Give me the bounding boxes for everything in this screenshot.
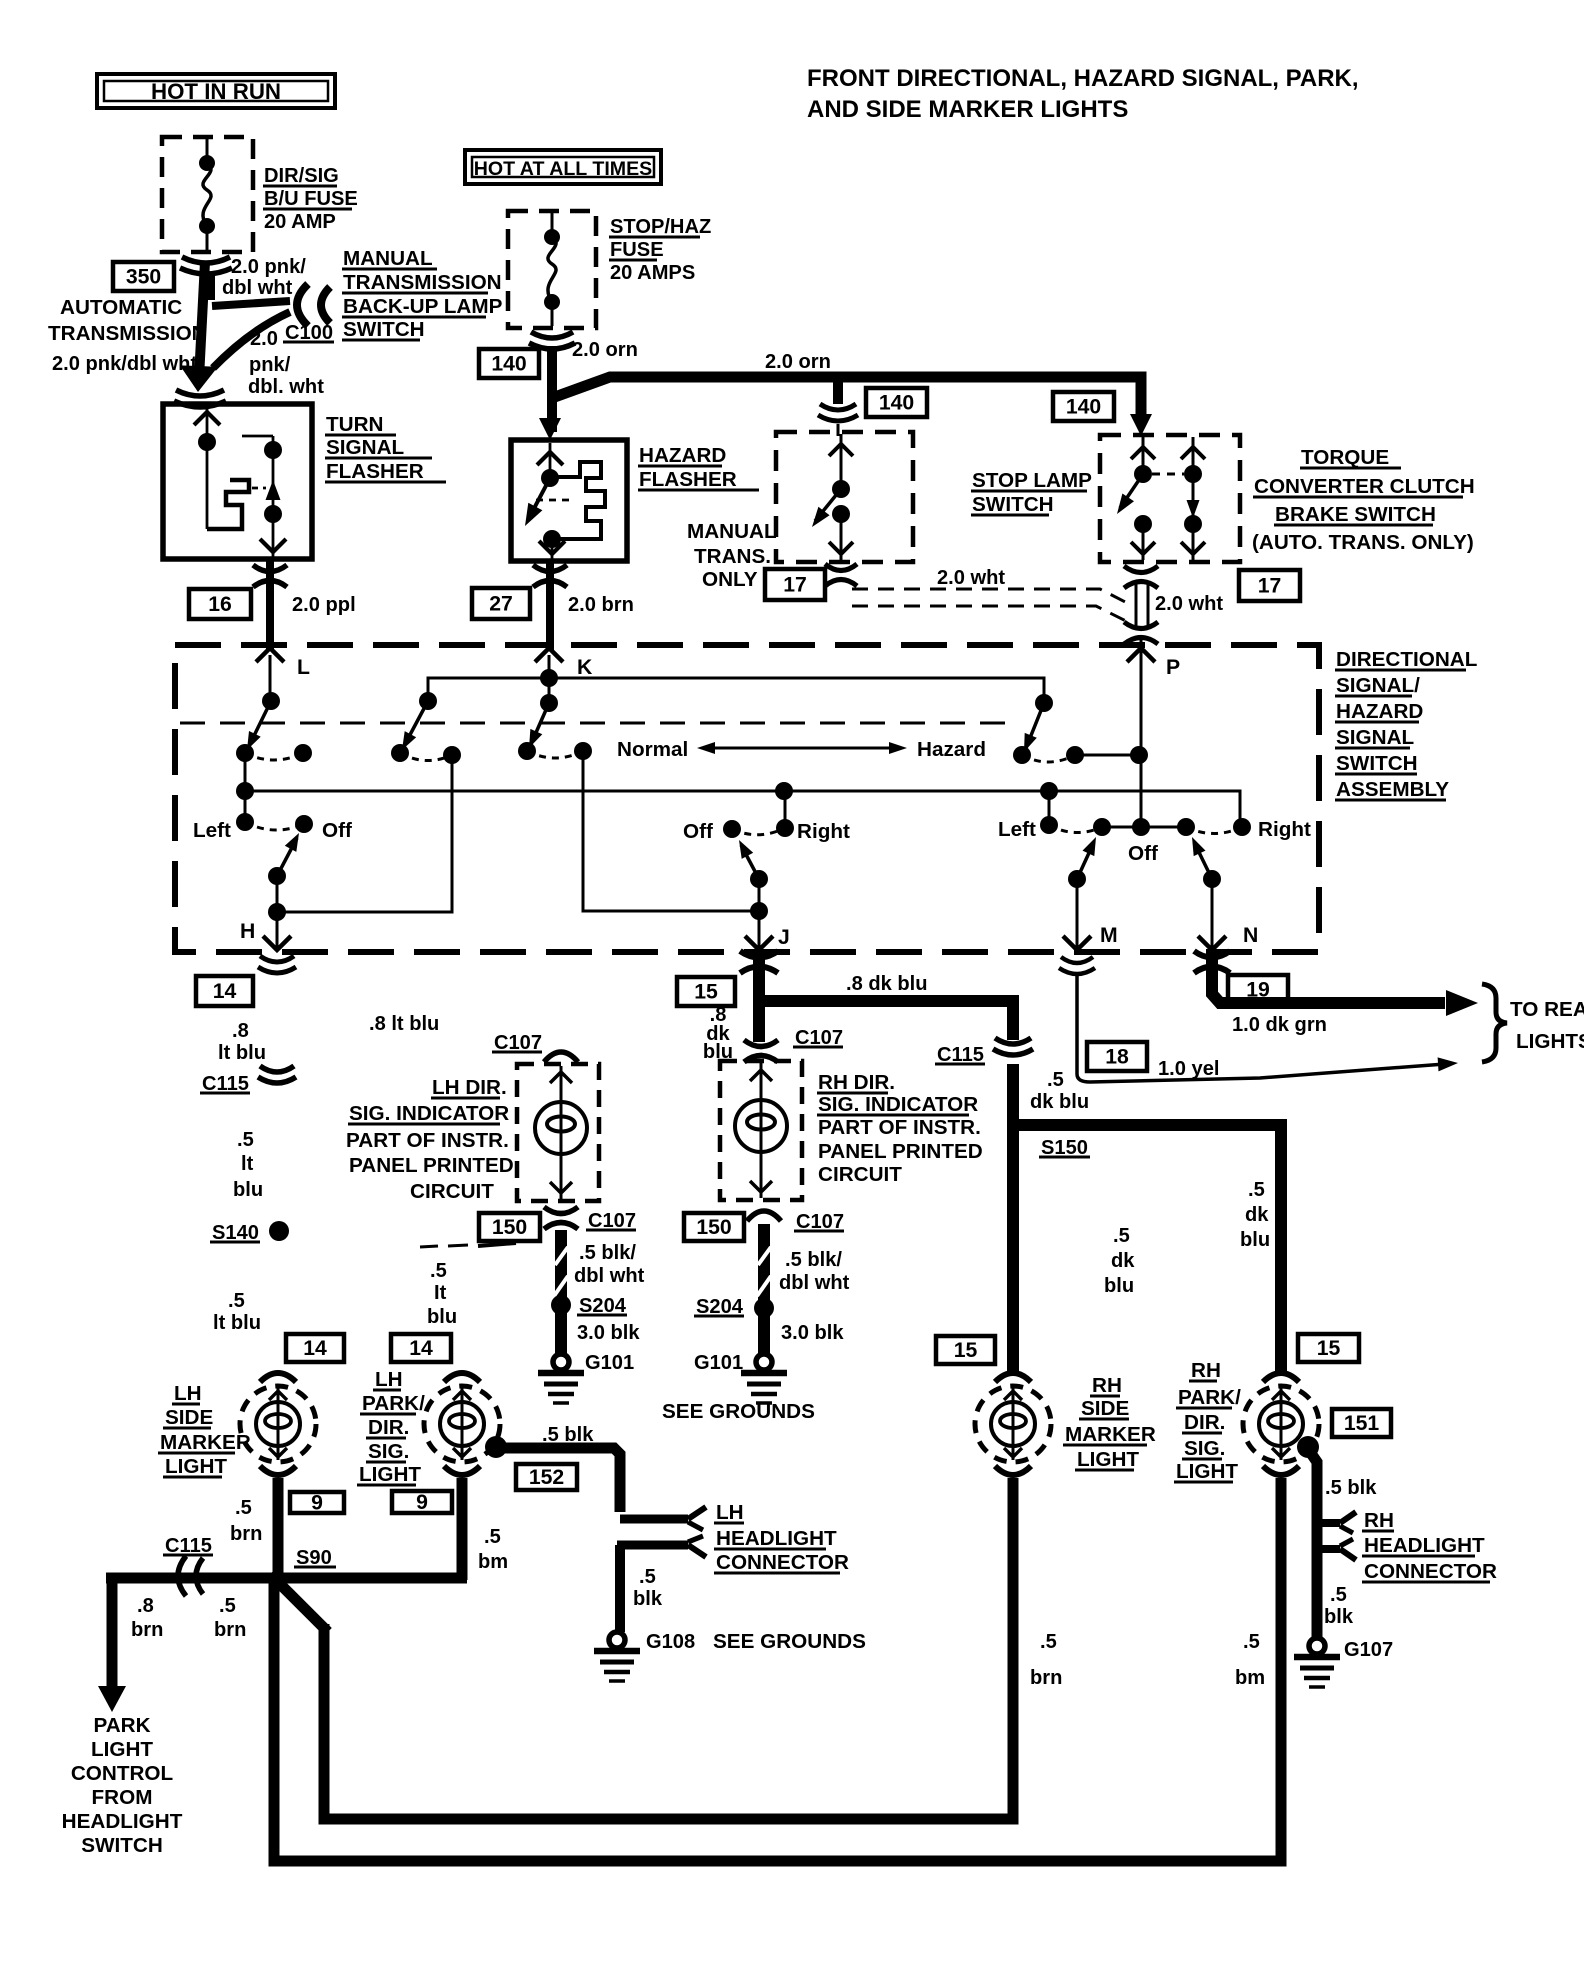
- stop lamp switch box: [776, 432, 913, 562]
- svg-text:LIGHTS: LIGHTS: [1516, 1030, 1584, 1053]
- wire park light control: [107, 1574, 118, 1692]
- svg-text:blu: blu: [427, 1306, 457, 1328]
- svg-text:16: 16: [208, 593, 232, 616]
- wire 16 to switch L: [266, 592, 274, 650]
- svg-text:brn: brn: [1030, 1667, 1062, 1689]
- svg-text:20 AMP: 20 AMP: [264, 211, 336, 233]
- svg-text:RH: RH: [1191, 1359, 1221, 1382]
- wire H exit: [276, 912, 279, 950]
- connector 9 LH1: [290, 1492, 344, 1513]
- svg-text:17: 17: [783, 574, 807, 597]
- svg-text:151: 151: [1344, 1412, 1380, 1435]
- svg-text:LIGHT: LIGHT: [165, 1455, 227, 1478]
- svg-text:2.0 wht: 2.0 wht: [937, 567, 1005, 589]
- normal-hazard arrow: [706, 747, 898, 750]
- svg-text:.5: .5: [1248, 1179, 1265, 1201]
- connector C115 bottom: [178, 1556, 186, 1596]
- svg-text:CONVERTER CLUTCH: CONVERTER CLUTCH: [1254, 475, 1475, 498]
- contacts row upper: [236, 744, 254, 762]
- svg-text:1.0 yel: 1.0 yel: [1158, 1058, 1219, 1080]
- terminal M: [1063, 936, 1091, 950]
- connector C107 LH top: [544, 1052, 578, 1062]
- svg-text:.5 blk: .5 blk: [1325, 1477, 1377, 1499]
- svg-text:G101: G101: [585, 1352, 634, 1374]
- wire lower return run: [274, 1478, 1281, 1861]
- wire to C100 upper: [212, 301, 290, 306]
- connector below stop/haz fuse: [531, 332, 573, 338]
- RH park junction dot: [1297, 1436, 1319, 1458]
- svg-text:DIR/SIG: DIR/SIG: [264, 165, 339, 187]
- svg-text:HEADLIGHT: HEADLIGHT: [62, 1810, 183, 1833]
- connector 140 middle: [866, 388, 927, 417]
- wire 15 branch: [1013, 1125, 1281, 1374]
- connector below turn flasher: [253, 565, 287, 572]
- svg-text:Off: Off: [322, 819, 352, 842]
- svg-text:HAZARD: HAZARD: [1336, 700, 1423, 723]
- svg-text:140: 140: [879, 392, 914, 415]
- svg-text:ONLY: ONLY: [702, 568, 758, 591]
- wire J exit: [758, 911, 761, 950]
- brace to rear lights: [1482, 984, 1507, 1062]
- svg-text:SIG.: SIG.: [368, 1440, 409, 1463]
- wire top link: [428, 678, 1044, 703]
- svg-text:ASSEMBLY: ASSEMBLY: [1336, 778, 1449, 801]
- svg-text:SWITCH: SWITCH: [81, 1834, 163, 1857]
- connector on stop lamp stub: [820, 404, 856, 410]
- svg-text:Off: Off: [1128, 842, 1158, 865]
- svg-text:RH: RH: [1092, 1374, 1122, 1397]
- svg-text:150: 150: [492, 1216, 527, 1239]
- svg-text:PANEL PRINTED: PANEL PRINTED: [818, 1140, 983, 1163]
- svg-text:TO REAR: TO REAR: [1510, 998, 1584, 1021]
- svg-text:H: H: [240, 920, 255, 943]
- connector 9 LH2: [392, 1491, 452, 1513]
- HOT AT ALL TIMES feed box: [465, 150, 661, 184]
- connector 15 left: [936, 1336, 995, 1364]
- svg-text:SIG.: SIG.: [1184, 1437, 1225, 1460]
- torque converter clutch brake switch box: [1100, 435, 1240, 562]
- terminal J: [745, 936, 773, 950]
- svg-text:.5 blk/: .5 blk/: [785, 1249, 842, 1271]
- svg-text:SWITCH: SWITCH: [972, 493, 1054, 516]
- RH dir sig indicator box: [720, 1061, 802, 1200]
- splice S204 RH: [754, 1298, 774, 1318]
- ground G101 LH: [553, 1354, 569, 1370]
- svg-text:STOP LAMP: STOP LAMP: [972, 469, 1092, 492]
- svg-text:9: 9: [311, 1492, 323, 1515]
- svg-text:bm: bm: [478, 1551, 508, 1573]
- svg-text:9: 9: [416, 1491, 428, 1514]
- svg-text:CONNECTOR: CONNECTOR: [1364, 1560, 1497, 1583]
- svg-text:.5 blk/: .5 blk/: [579, 1242, 636, 1264]
- wiper H: [277, 838, 297, 876]
- connector C100: [297, 284, 308, 326]
- svg-text:.8 lt blu: .8 lt blu: [369, 1013, 439, 1035]
- svg-text:BRAKE SWITCH: BRAKE SWITCH: [1275, 503, 1436, 526]
- LH park/dir sig bulb: [424, 1386, 500, 1462]
- svg-text:.5: .5: [430, 1260, 447, 1282]
- svg-text:14: 14: [303, 1337, 327, 1360]
- svg-text:LH: LH: [174, 1382, 202, 1405]
- svg-text:dbl wht: dbl wht: [779, 1272, 850, 1294]
- svg-text:FUSE: FUSE: [610, 239, 664, 261]
- svg-text:PARK: PARK: [93, 1714, 150, 1737]
- connector C115 right: [995, 1038, 1031, 1044]
- svg-text:PART OF INSTR.: PART OF INSTR.: [818, 1116, 981, 1139]
- svg-text:dbl wht: dbl wht: [574, 1265, 645, 1287]
- svg-text:dbl wht: dbl wht: [222, 277, 293, 299]
- svg-text:.5: .5: [1040, 1631, 1057, 1653]
- connector 14 right: [391, 1334, 451, 1362]
- svg-text:MARKER: MARKER: [1065, 1423, 1156, 1446]
- wiper b upper: [404, 701, 428, 746]
- wire to P: [1140, 640, 1143, 662]
- svg-text:PARK/: PARK/: [362, 1392, 425, 1415]
- svg-text:20 AMPS: 20 AMPS: [610, 262, 695, 284]
- svg-text:LH: LH: [375, 1368, 403, 1391]
- RH park/dir sig bulb: [1243, 1386, 1319, 1462]
- svg-text:.5: .5: [219, 1595, 236, 1617]
- svg-text:LH: LH: [716, 1501, 744, 1524]
- svg-text:blk: blk: [1324, 1606, 1354, 1628]
- svg-text:PART OF INSTR.: PART OF INSTR.: [346, 1129, 509, 1152]
- wire N grn: [1212, 952, 1445, 1003]
- svg-text:150: 150: [696, 1216, 731, 1239]
- connector below arrow: [176, 390, 224, 396]
- wire 2.0 wht dashed upper: [852, 589, 1133, 606]
- connector 16: [189, 589, 251, 619]
- wire from C100 lower: [213, 312, 290, 368]
- svg-text:dk blu: dk blu: [1030, 1091, 1089, 1113]
- svg-text:pnk/: pnk/: [249, 354, 291, 376]
- arrow into hazard flasher: [539, 418, 561, 440]
- svg-text:TURN: TURN: [326, 413, 383, 436]
- svg-text:.5: .5: [1113, 1225, 1130, 1247]
- connector 15 J: [677, 977, 735, 1006]
- svg-text:TORQUE: TORQUE: [1301, 446, 1389, 469]
- svg-text:.5: .5: [1243, 1631, 1260, 1653]
- svg-text:SEE GROUNDS: SEE GROUNDS: [713, 1630, 866, 1653]
- svg-text:14: 14: [213, 980, 237, 1003]
- svg-text:MANUAL: MANUAL: [687, 520, 777, 543]
- svg-text:M: M: [1100, 924, 1118, 947]
- svg-text:350: 350: [126, 266, 161, 289]
- wire fuse to hazard flasher: [547, 346, 557, 432]
- arrow into torque switch: [1130, 414, 1152, 436]
- wire 2.0 wht hollow: [1135, 584, 1138, 627]
- svg-text:18: 18: [1105, 1046, 1129, 1069]
- svg-text:Off: Off: [683, 820, 713, 843]
- svg-text:15: 15: [954, 1339, 978, 1362]
- wiper N: [1194, 842, 1212, 879]
- wire fuse to flasher: [199, 262, 205, 378]
- svg-text:.8: .8: [137, 1595, 154, 1617]
- svg-text:SIDE: SIDE: [1081, 1397, 1129, 1420]
- wire J cross link: [583, 751, 759, 911]
- torque switch internals: [1142, 437, 1145, 474]
- connector below N: [1194, 951, 1230, 958]
- svg-text:17: 17: [1258, 575, 1282, 598]
- left group lower: [244, 791, 247, 822]
- pivot dots upper: [262, 692, 280, 710]
- wire S90 horizontal: [106, 1573, 467, 1584]
- svg-text:(AUTO. TRANS. ONLY): (AUTO. TRANS. ONLY): [1252, 531, 1474, 554]
- wire stub lower: [837, 424, 840, 436]
- svg-text:PARK/: PARK/: [1178, 1386, 1241, 1409]
- svg-text:RH: RH: [1364, 1509, 1394, 1532]
- svg-text:2.0 pnk/: 2.0 pnk/: [231, 256, 306, 278]
- terminal P: [1127, 648, 1155, 662]
- svg-text:It: It: [434, 1282, 447, 1304]
- svg-text:.5: .5: [484, 1526, 501, 1548]
- svg-text:FLASHER: FLASHER: [326, 460, 424, 483]
- svg-text:Left: Left: [193, 819, 231, 842]
- terminal K: [535, 648, 563, 662]
- svg-text:27: 27: [489, 593, 513, 616]
- svg-text:MANUAL: MANUAL: [343, 247, 433, 270]
- wire hazard to 27: [546, 561, 554, 592]
- wire 2.0 wht dashed lower: [852, 606, 1130, 623]
- connector below stop lamp switch: [825, 564, 857, 571]
- svg-text:.5: .5: [228, 1290, 245, 1312]
- wire P into box: [1140, 655, 1143, 827]
- smudge dashes: [420, 1246, 438, 1247]
- svg-text:dbl. wht: dbl. wht: [248, 376, 324, 398]
- svg-text:15: 15: [1317, 1337, 1341, 1360]
- connector 150 LH: [479, 1213, 540, 1241]
- svg-text:PANEL PRINTED: PANEL PRINTED: [349, 1154, 514, 1177]
- fuse DIR/SIG B/U FUSE 20 AMP: [162, 137, 253, 252]
- mechanical dashed link: [180, 722, 1020, 725]
- svg-text:2.0 orn: 2.0 orn: [572, 339, 638, 361]
- svg-text:Right: Right: [797, 820, 850, 843]
- svg-text:SWITCH: SWITCH: [1336, 752, 1418, 775]
- svg-text:RH DIR.: RH DIR.: [818, 1071, 895, 1094]
- svg-text:K: K: [577, 656, 593, 679]
- svg-text:2.0 brn: 2.0 brn: [568, 594, 634, 616]
- svg-text:.5: .5: [639, 1566, 656, 1588]
- connector 14 H: [196, 976, 253, 1006]
- svg-text:2.0: 2.0: [250, 328, 278, 350]
- svg-text:TRANS.: TRANS.: [694, 545, 771, 568]
- connector below fuse: [182, 257, 230, 263]
- connector C107 LH bottom: [544, 1207, 578, 1214]
- svg-text:CIRCUIT: CIRCUIT: [818, 1163, 902, 1186]
- svg-text:BACK-UP LAMP: BACK-UP LAMP: [343, 295, 503, 318]
- ground G101 RH: [756, 1354, 772, 1370]
- svg-text:2.0 orn: 2.0 orn: [765, 351, 831, 373]
- contact arcs upper: [245, 753, 303, 760]
- svg-text:SIGNAL/: SIGNAL/: [1336, 674, 1420, 697]
- hazard flasher box: [511, 440, 627, 561]
- connector 151: [1332, 1409, 1391, 1437]
- svg-text:DIR.: DIR.: [368, 1416, 409, 1439]
- svg-text:HOT IN RUN: HOT IN RUN: [151, 79, 281, 104]
- connector 18: [1087, 1042, 1147, 1071]
- terminal L: [256, 648, 284, 662]
- svg-text:Hazard: Hazard: [917, 738, 986, 761]
- wire upper return run: [324, 1478, 1013, 1819]
- wire L into box: [269, 655, 272, 701]
- svg-text:SIGNAL: SIGNAL: [326, 436, 404, 459]
- svg-text:14: 14: [409, 1337, 433, 1360]
- svg-text:140: 140: [1066, 396, 1101, 419]
- svg-text:Left: Left: [998, 818, 1036, 841]
- connector 15 right: [1298, 1334, 1359, 1362]
- wire S90 diagonal: [274, 1578, 324, 1628]
- turn signal flasher internals: [206, 407, 209, 529]
- wire LH park down: [457, 1478, 468, 1580]
- stop lamp switch internals: [840, 434, 843, 489]
- connector 17 right: [1239, 570, 1300, 601]
- svg-text:152: 152: [529, 1466, 564, 1489]
- svg-text:DIR.: DIR.: [1184, 1411, 1225, 1434]
- wire to G108: [615, 1545, 625, 1632]
- turn signal flasher box: [163, 404, 312, 559]
- wire M yel: [1077, 973, 1445, 1082]
- connector below M: [1061, 957, 1093, 963]
- svg-text:FROM: FROM: [92, 1786, 153, 1809]
- HOT IN RUN feed box: [97, 74, 335, 108]
- connector 27: [472, 588, 530, 619]
- svg-text:blu: blu: [233, 1179, 263, 1201]
- svg-text:LIGHT: LIGHT: [91, 1738, 153, 1761]
- LH park junction dot: [485, 1436, 507, 1458]
- svg-text:LIGHT: LIGHT: [1077, 1448, 1139, 1471]
- svg-text:HEADLIGHT: HEADLIGHT: [716, 1527, 837, 1550]
- svg-text:15: 15: [694, 981, 718, 1004]
- svg-text:LIGHT: LIGHT: [1176, 1460, 1238, 1483]
- svg-text:B/U FUSE: B/U FUSE: [264, 188, 358, 210]
- svg-text:brn: brn: [230, 1523, 262, 1545]
- svg-text:blk: blk: [633, 1588, 663, 1610]
- MN group contacts: [1048, 791, 1051, 825]
- wire stub to stop lamp switch: [833, 382, 843, 404]
- svg-text:TRANSMISSION: TRANSMISSION: [48, 322, 207, 345]
- svg-text:AND SIDE MARKER LIGHTS: AND SIDE MARKER LIGHTS: [807, 96, 1128, 123]
- wire RH indicator ground: [758, 1224, 770, 1354]
- svg-text:HAZARD: HAZARD: [639, 444, 726, 467]
- svg-text:blu: blu: [1240, 1229, 1270, 1251]
- wire LH side marker down: [273, 1478, 284, 1580]
- svg-text:.5: .5: [235, 1497, 252, 1519]
- connector below hazard flasher: [533, 565, 567, 572]
- svg-text:.5: .5: [237, 1129, 254, 1151]
- svg-text:2.0 wht: 2.0 wht: [1155, 593, 1223, 615]
- arrow into turn signal flasher: [180, 365, 218, 392]
- RH headlight connector symbol: [1317, 1519, 1340, 1527]
- svg-text:P: P: [1166, 656, 1180, 679]
- svg-text:DIRECTIONAL: DIRECTIONAL: [1336, 648, 1477, 671]
- wiper L upper: [249, 701, 271, 746]
- wiper P upper: [1026, 703, 1044, 748]
- svg-text:SWITCH: SWITCH: [343, 318, 425, 341]
- svg-text:lt blu: lt blu: [213, 1312, 261, 1334]
- connector below torque switch: [1124, 566, 1158, 573]
- connector C107 RH top: [744, 1040, 778, 1047]
- svg-text:AUTOMATIC: AUTOMATIC: [60, 296, 182, 319]
- connector C107 RH bottom: [747, 1211, 781, 1221]
- svg-text:dk: dk: [1111, 1250, 1135, 1272]
- svg-text:L: L: [297, 656, 310, 679]
- svg-text:FLASHER: FLASHER: [639, 468, 737, 491]
- svg-text:lt: lt: [241, 1153, 254, 1175]
- svg-text:CONNECTOR: CONNECTOR: [716, 1551, 849, 1574]
- svg-text:HEADLIGHT: HEADLIGHT: [1364, 1534, 1485, 1557]
- connector 19: [1228, 975, 1288, 1004]
- directional signal switch assembly box: [175, 645, 1319, 952]
- svg-text:STOP/HAZ: STOP/HAZ: [610, 216, 711, 238]
- svg-text:TRANSMISSION: TRANSMISSION: [343, 271, 502, 294]
- connector C115 left: [260, 1066, 294, 1072]
- ground G108: [609, 1632, 625, 1648]
- wire orn bus: [552, 377, 1141, 424]
- svg-text:.8: .8: [232, 1020, 249, 1042]
- wire 15 main: [1007, 1064, 1019, 1374]
- svg-text:bm: bm: [1235, 1667, 1265, 1689]
- wire LH indicator ground: [555, 1230, 567, 1354]
- wiper M: [1077, 842, 1094, 879]
- connector below H: [260, 956, 294, 962]
- splice S204 LH: [551, 1295, 571, 1315]
- connector 140 right: [1053, 392, 1114, 421]
- wire J dk blu: [759, 952, 1013, 1040]
- svg-text:Normal: Normal: [617, 738, 688, 761]
- LH headlight connector symbol: [620, 1515, 688, 1524]
- svg-text:dk: dk: [1245, 1204, 1269, 1226]
- wire bus: [245, 753, 1240, 827]
- svg-text:.5: .5: [1047, 1069, 1064, 1091]
- svg-text:SIG. INDICATOR: SIG. INDICATOR: [818, 1093, 978, 1116]
- LH side marker bulb: [240, 1386, 316, 1462]
- wire K into box: [548, 655, 551, 703]
- svg-text:Right: Right: [1258, 818, 1311, 841]
- svg-text:SIG. INDICATOR: SIG. INDICATOR: [349, 1102, 509, 1125]
- connector above P: [1124, 622, 1158, 629]
- wire 27 to switch K: [546, 592, 554, 650]
- LH indicator internals: [560, 1066, 563, 1199]
- wire blk LH: [496, 1448, 620, 1512]
- connector 140 left: [479, 349, 539, 378]
- svg-text:MARKER: MARKER: [160, 1431, 251, 1454]
- arrow park light control: [98, 1686, 126, 1712]
- svg-text:.5: .5: [1330, 1584, 1347, 1606]
- bus dots: [236, 782, 254, 800]
- wire P contact link: [1075, 754, 1141, 757]
- wiper J: [741, 845, 759, 879]
- J group contacts: [784, 791, 787, 828]
- wire J to RH indicator: [753, 1001, 765, 1042]
- RH indicator internals: [760, 1063, 763, 1198]
- svg-text:FRONT DIRECTIONAL, HAZARD SIGN: FRONT DIRECTIONAL, HAZARD SIGNAL, PARK,: [807, 65, 1359, 92]
- svg-text:LH DIR.: LH DIR.: [432, 1076, 507, 1099]
- svg-text:CIRCUIT: CIRCUIT: [410, 1180, 494, 1203]
- wire flasher to 16: [266, 559, 274, 592]
- terminal H: [263, 936, 291, 950]
- svg-text:N: N: [1243, 924, 1258, 947]
- connector 14 left: [286, 1334, 344, 1362]
- svg-text:CONTROL: CONTROL: [71, 1762, 173, 1785]
- svg-text:brn: brn: [131, 1619, 163, 1641]
- terminal N: [1198, 936, 1226, 950]
- svg-text:J: J: [778, 926, 790, 949]
- svg-text:LIGHT: LIGHT: [359, 1463, 421, 1486]
- svg-text:2.0 pnk/dbl wht: 2.0 pnk/dbl wht: [52, 353, 197, 375]
- connector 350: [113, 262, 174, 291]
- RH side marker bulb: [975, 1386, 1051, 1462]
- svg-text:1.0 dk grn: 1.0 dk grn: [1232, 1014, 1327, 1036]
- ground G107: [1309, 1638, 1325, 1654]
